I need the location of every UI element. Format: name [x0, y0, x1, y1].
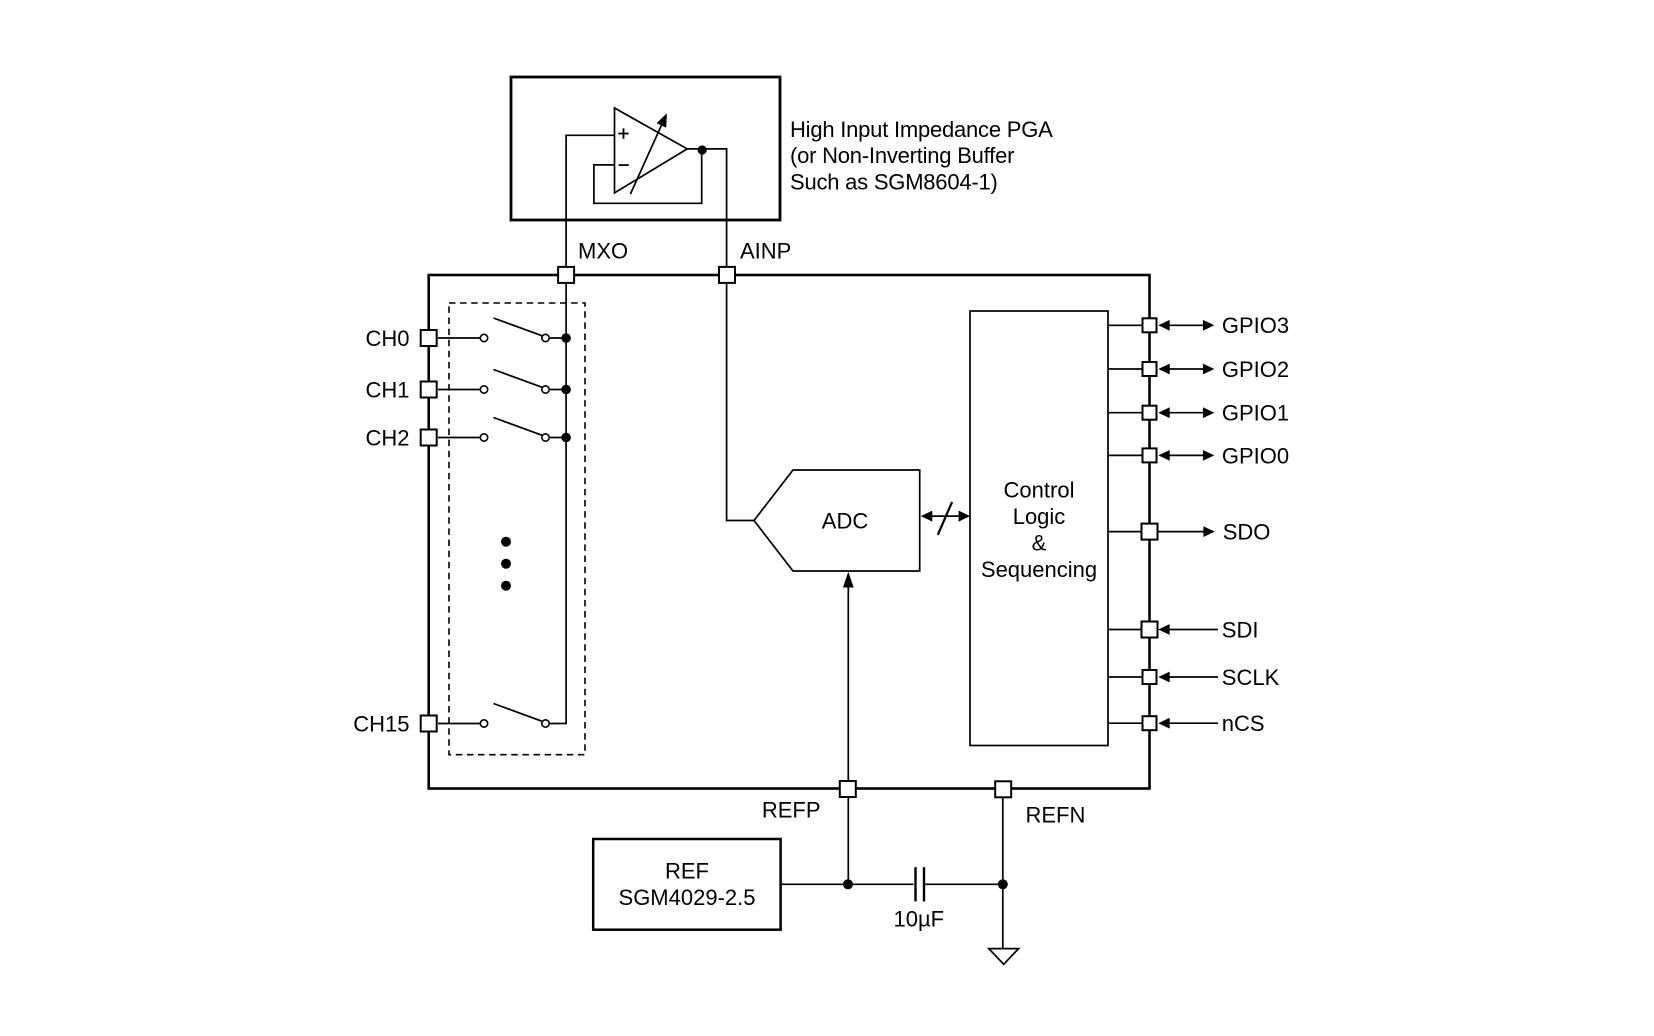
pin AINP [719, 267, 735, 283]
mux output bus wire (MXO net) [565, 282, 567, 724]
capacitor C1 plates [916, 867, 925, 901]
wire REFN pin to ground [1002, 797, 1004, 949]
PGA enclosure box [511, 77, 780, 220]
wire REFP pin to reference node [847, 797, 849, 884]
wire capacitor to REFN node [925, 883, 1003, 885]
wire: feedback loop from - input to output node [594, 152, 702, 203]
svg-text:GPIO0: GPIO0 [1222, 443, 1289, 468]
GPIO3 bidirectional arrow [1158, 320, 1214, 331]
junction dot CH0 on bus [561, 333, 571, 343]
pin SCLK [1143, 670, 1157, 684]
bus width slash [938, 502, 952, 535]
pin nCS [1143, 716, 1157, 730]
svg-text:&: & [1032, 530, 1047, 555]
svg-text:REFP: REFP [762, 797, 821, 822]
pin MXO [558, 267, 574, 283]
Control Logic block [970, 311, 1108, 746]
svg-text:(or Non-Inverting Buffer: (or Non-Inverting Buffer [790, 143, 1014, 168]
multiplexer dashed box [449, 303, 585, 755]
svg-text:REFN: REFN [1026, 802, 1086, 827]
svg-text:Logic: Logic [1013, 504, 1066, 529]
pin SDO [1142, 524, 1158, 540]
pin GPIO3 [1143, 318, 1157, 332]
svg-text:SCLK: SCLK [1222, 665, 1280, 690]
svg-text:CH2: CH2 [365, 425, 409, 450]
GPIO0 bidirectional arrow [1158, 450, 1214, 461]
pin CH0 [421, 330, 437, 346]
gain arrow through op-amp [630, 126, 661, 195]
svg-text:Sequencing: Sequencing [981, 557, 1097, 582]
wire control to SDI pin [1108, 629, 1142, 631]
svg-text:CH0: CH0 [365, 326, 409, 351]
REFP arrow wire into ADC [847, 586, 849, 781]
svg-text:GPIO2: GPIO2 [1222, 357, 1289, 382]
svg-text:Control: Control [1004, 478, 1075, 503]
wire control to GPIO3 pin [1108, 324, 1142, 326]
SDI input arrow [1158, 624, 1218, 635]
wire CH0 pin to switch [438, 337, 480, 339]
GPIO2 bidirectional arrow [1158, 364, 1214, 375]
junction dot REFN node [998, 879, 1008, 889]
wire REF output to node [781, 883, 914, 885]
GPIO1 bidirectional arrow [1158, 407, 1214, 418]
wire CH2 pin to switch [438, 437, 480, 439]
pin SDI [1142, 622, 1158, 638]
wire CH15 pin to switch [438, 723, 480, 725]
wire control to GPIO2 pin [1108, 368, 1142, 370]
op-amp - pin marker [619, 164, 629, 166]
pin REFP [840, 781, 856, 797]
AINP internal wire to ADC [727, 282, 754, 521]
wire control to GPIO1 pin [1108, 412, 1142, 414]
svg-text:10µF: 10µF [894, 907, 945, 932]
pin CH1 [421, 382, 437, 398]
wire control to SCLK pin [1108, 676, 1142, 678]
pin GPIO2 [1143, 362, 1157, 376]
switch S1 (CH1) [480, 370, 566, 394]
svg-text:REF: REF [665, 858, 709, 883]
svg-text:ADC: ADC [822, 509, 869, 534]
svg-text:GPIO3: GPIO3 [1222, 313, 1289, 338]
switch S0 (CH0) [480, 318, 566, 342]
SDO output arrow [1159, 526, 1215, 537]
REF block U2 SGM4029-2.5 [593, 839, 780, 930]
switch S2 (CH2) [480, 418, 566, 442]
wire control to nCS pin [1108, 722, 1142, 724]
ellipsis dots (channels 3..14) [501, 537, 511, 547]
svg-text:SDO: SDO [1223, 520, 1271, 545]
svg-text:Such as SGM8604-1): Such as SGM8604-1) [790, 169, 998, 194]
pin GPIO0 [1143, 448, 1157, 462]
pin REFN [995, 781, 1011, 797]
op-amp + pin marker [618, 128, 629, 138]
svg-text:High Input Impedance PGA: High Input Impedance PGA [790, 117, 1053, 142]
ADC block [754, 470, 920, 571]
wire control to GPIO0 pin [1108, 454, 1142, 456]
junction dot CH2 on bus [561, 433, 571, 443]
data bus double arrow ADC to Control Logic [930, 515, 961, 517]
pin CH15 [421, 716, 437, 732]
nCS input arrow [1158, 718, 1218, 729]
switch S15 (CH15) [480, 704, 567, 728]
svg-text:GPIO1: GPIO1 [1222, 401, 1289, 426]
ground [989, 949, 1019, 965]
svg-text:MXO: MXO [578, 239, 628, 264]
wire: op-amp + input to MXO [566, 135, 614, 268]
svg-text:nCS: nCS [1222, 711, 1265, 736]
SCLK input arrow [1158, 672, 1218, 683]
wire: op-amp output to AINP [687, 149, 727, 268]
pin CH2 [421, 430, 437, 446]
main chip body [429, 275, 1150, 789]
pin GPIO1 [1143, 406, 1157, 420]
junction dot REFP node [843, 879, 853, 889]
svg-text:CH15: CH15 [353, 711, 409, 736]
op-amp U1 (PGA amplifier) [615, 108, 688, 193]
svg-text:SGM4029-2.5: SGM4029-2.5 [619, 885, 756, 910]
output node junction dot [698, 145, 707, 154]
svg-text:CH1: CH1 [365, 377, 409, 402]
wire CH1 pin to switch [438, 389, 480, 391]
wire control to SDO pin [1108, 531, 1142, 533]
junction dot CH1 on bus [561, 385, 571, 395]
svg-text:SDI: SDI [1222, 617, 1259, 642]
svg-text:AINP: AINP [740, 238, 791, 263]
